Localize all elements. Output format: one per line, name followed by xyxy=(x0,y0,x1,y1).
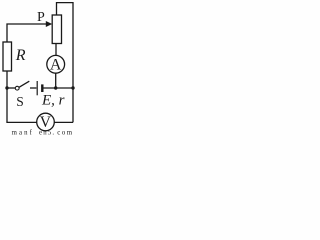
rheostat P (box) xyxy=(52,15,61,44)
junction node ammeter-middle xyxy=(54,86,57,89)
junction node right xyxy=(71,86,74,89)
label R xyxy=(15,47,26,64)
watermark manfen5.com xyxy=(12,130,74,137)
junction node left xyxy=(5,86,8,89)
wire bottom left xyxy=(6,121,37,123)
wire left vertical top (corner to resistor) xyxy=(7,24,47,42)
label P xyxy=(37,10,45,25)
svg-text:V: V xyxy=(40,114,52,131)
svg-text:S: S xyxy=(16,94,24,109)
ammeter A xyxy=(47,55,65,73)
svg-text:A: A xyxy=(50,57,62,74)
svg-text:manf: manf xyxy=(12,130,34,136)
svg-text:E, r: E, r xyxy=(41,92,65,108)
wire left vertical lower xyxy=(6,71,8,122)
voltmeter V xyxy=(37,113,55,131)
svg-text:P: P xyxy=(37,10,45,25)
wire middle switch to battery xyxy=(30,87,36,89)
wire middle battery to right xyxy=(43,87,74,89)
svg-text:R: R xyxy=(15,47,26,64)
wire rheostat bottom to ammeter xyxy=(55,44,57,56)
wire middle left (junction to switch) xyxy=(7,87,15,89)
svg-text:com: com xyxy=(57,130,73,136)
wire right vertical xyxy=(57,3,74,123)
resistor R (box) xyxy=(3,42,12,71)
wire bottom right xyxy=(54,121,73,123)
battery E,r (cell) xyxy=(37,81,42,95)
switch S xyxy=(15,81,29,90)
wire ammeter to middle xyxy=(55,73,57,88)
label E, r xyxy=(41,92,65,108)
label S xyxy=(16,94,24,109)
wiper arrow xyxy=(46,21,52,27)
